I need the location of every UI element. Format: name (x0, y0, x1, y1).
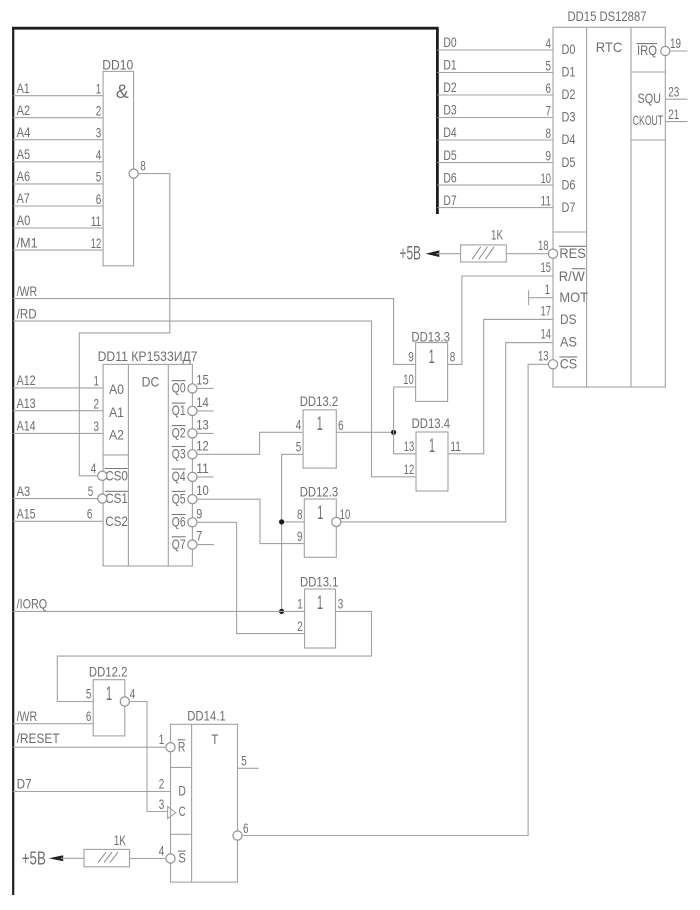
svg-text:13: 13 (538, 348, 549, 364)
wire data bus D2 to DD15 pin 6 (437, 94, 553, 96)
wire input A6 to DD10 pin 5 (13, 183, 103, 185)
svg-text:1: 1 (317, 592, 323, 614)
wire input /M1 to DD10 pin 12 (13, 249, 103, 251)
svg-text:23: 23 (668, 83, 679, 99)
DD11 output inversion bubble pin 11 (188, 472, 197, 481)
wire Q6 (pin 9) to DD13.1 pin 2 (197, 522, 305, 633)
svg-text:D0: D0 (562, 41, 576, 57)
DD15 internal divider left (586, 27, 588, 387)
wire D7 to DD14.1 pin 2 (13, 791, 170, 793)
svg-text:A0: A0 (109, 381, 124, 397)
svg-text:1: 1 (545, 281, 551, 297)
svg-text:D4: D4 (443, 124, 456, 140)
svg-text:CS2: CS2 (105, 513, 128, 529)
wire resistor R2 to DD14.1 pin 4 (130, 858, 167, 860)
DD11 internal divider left (127, 364, 129, 566)
svg-text:12: 12 (196, 437, 209, 453)
svg-text:8: 8 (140, 158, 146, 174)
svg-text:DD12.3: DD12.3 (300, 484, 339, 500)
svg-text:10: 10 (340, 506, 351, 522)
wire Q5 (pin 10) to DD12.3 pin 9 (197, 499, 304, 543)
wire DD12.2 output 4 to DD14.1 pin 3 (C) (129, 702, 167, 812)
svg-text:CKOUT: CKOUT (633, 112, 664, 128)
wire node down to DD13.4 pin 13 (394, 432, 416, 454)
DD11 output inversion bubble pin 9 (188, 518, 197, 527)
svg-text:AS: AS (560, 334, 577, 350)
MOT open-end tick (528, 290, 530, 305)
svg-text:D7: D7 (443, 192, 456, 208)
overline for Q7 (172, 536, 186, 538)
svg-text:A7: A7 (17, 190, 30, 206)
svg-text:CS1: CS1 (105, 490, 128, 506)
svg-text:4: 4 (130, 686, 136, 702)
svg-text:T: T (211, 731, 219, 747)
svg-text:D5: D5 (443, 147, 456, 163)
DD15 pin 19 inversion bubble (661, 46, 670, 55)
DD12.3 output inversion bubble pin 10 (332, 517, 341, 526)
wire DD13.3 pin 10 from node (394, 386, 416, 388)
svg-text:/WR: /WR (17, 708, 37, 724)
overline for RES (559, 245, 586, 247)
wire /RD to DD13.4 pin 12 (13, 321, 416, 477)
svg-text:9: 9 (196, 505, 202, 521)
wire input A15 to DD11 pin 6 (13, 520, 103, 522)
svg-text:A15: A15 (17, 506, 36, 522)
svg-text:D7: D7 (562, 199, 576, 215)
svg-text:4: 4 (96, 147, 102, 163)
wire data bus D7 to DD15 pin 11 (437, 207, 553, 209)
DD14.1 output stub pin 5 (238, 767, 259, 769)
wire input A12 to DD11 pin 1 (13, 387, 103, 389)
svg-text:DD13.4: DD13.4 (412, 415, 451, 431)
resistor R1 hatch (472, 247, 494, 259)
svg-text:Q7: Q7 (172, 536, 186, 552)
svg-text:11: 11 (541, 192, 552, 208)
wire DD13.2 pin 5 from IORQ net (282, 453, 304, 455)
overline for Q1 (172, 402, 186, 404)
svg-text:A13: A13 (17, 395, 36, 411)
DD11 pin 4 inversion bubble (98, 471, 107, 480)
DD11 output inversion bubble pin 14 (188, 406, 197, 415)
wire input A7 to DD10 pin 6 (13, 205, 103, 207)
nor-gate DD12.2 body (93, 680, 125, 736)
resistor R2 body (84, 849, 130, 866)
svg-text:1: 1 (429, 346, 435, 368)
svg-text:6: 6 (87, 506, 93, 522)
svg-text:11: 11 (450, 438, 461, 454)
svg-text:/M1: /M1 (17, 234, 38, 250)
svg-text:CS0: CS0 (105, 467, 128, 483)
wire DD13.4 output 11 to DD15 DS pin 17 (448, 319, 553, 453)
power arrow +5В (bottom) (49, 855, 63, 861)
svg-text:13: 13 (404, 438, 415, 454)
wire DD12.3 pin 8 from IORQ net (282, 521, 305, 523)
DD14.1 left column divider upper (171, 766, 192, 768)
svg-text:A0: A0 (17, 212, 31, 228)
svg-text:Q0: Q0 (172, 380, 186, 396)
DD10 output inversion bubble pin 8 (129, 169, 138, 178)
svg-text:12: 12 (91, 235, 102, 251)
resistor R2 hatch (98, 852, 118, 862)
overline for Q2 (172, 425, 186, 427)
wire resistor R1 to DD15 pin 18 (506, 253, 548, 255)
svg-text:MOT: MOT (559, 289, 588, 305)
svg-text:A4: A4 (17, 124, 31, 140)
svg-text:12: 12 (404, 461, 415, 477)
svg-text:D1: D1 (443, 57, 456, 73)
wire Q3 (pin 12) to DD13.2 pin 4 (197, 432, 303, 454)
svg-text:1: 1 (106, 683, 112, 705)
wire data bus D4 to DD15 pin 8 (437, 139, 553, 141)
DD15 internal divider right (630, 27, 632, 387)
wire node vertical up to DD13.3 pin 10 (393, 387, 395, 432)
svg-text:DD14.1: DD14.1 (187, 708, 226, 724)
svg-text:SQU: SQU (638, 90, 662, 106)
svg-text:D6: D6 (562, 176, 576, 192)
svg-text:D3: D3 (562, 109, 576, 125)
RTC chip DD15 body (553, 27, 665, 387)
svg-text:6: 6 (86, 708, 92, 724)
node junction on DD12.3 pin 8 (279, 519, 284, 524)
wire DD15 pin 23 stub (665, 98, 687, 100)
flip-flop DD14.1 body (171, 724, 238, 882)
svg-text:6: 6 (96, 191, 102, 207)
DD11 output inversion bubble pin 7 (188, 540, 197, 549)
svg-text:A2: A2 (17, 102, 31, 118)
svg-text:D4: D4 (562, 131, 576, 147)
wire DD12.3 output 10 to DD15 AS pin 14 (341, 343, 553, 522)
node junction DD13.2.6-DD13.3.10-DD13.4.13 (391, 430, 396, 435)
svg-text:DD12.2: DD12.2 (89, 664, 128, 680)
stub wire Q4 (197, 476, 214, 478)
svg-text:2: 2 (297, 618, 303, 634)
svg-text:7: 7 (546, 102, 552, 118)
svg-text:D0: D0 (443, 34, 456, 50)
svg-text:C: C (179, 803, 186, 819)
svg-text:2: 2 (159, 776, 165, 792)
svg-text:W: W (572, 268, 585, 284)
svg-text:/RESET: /RESET (17, 730, 60, 746)
svg-text:A3: A3 (17, 483, 31, 499)
svg-text:5: 5 (241, 753, 247, 769)
wire input A13 to DD11 pin 2 (13, 410, 103, 412)
svg-text:CS: CS (560, 356, 577, 372)
or-gate DD13.3 body (416, 343, 448, 402)
wire DD15 pin 17 DS (484, 318, 553, 320)
svg-text:D6: D6 (443, 169, 456, 185)
DD11 left column divider (103, 454, 128, 456)
or-gate DD13.4 body (416, 432, 448, 491)
svg-text:A14: A14 (17, 418, 36, 434)
DD15 right column divider under CKOUT (631, 139, 665, 141)
DD14.1 clock edge triangle pin 3 (168, 807, 176, 819)
svg-text:13: 13 (196, 416, 209, 432)
svg-text:3: 3 (94, 418, 100, 434)
DD11 pin 5 inversion bubble (98, 494, 107, 503)
wire input A4 to DD10 pin 3 (13, 139, 103, 141)
svg-text:1K: 1K (114, 832, 126, 848)
svg-text:DD13.3: DD13.3 (411, 328, 450, 344)
power arrow +5В (top) (426, 250, 440, 257)
svg-text:D7: D7 (17, 776, 32, 792)
or-gate DD13.1 body (305, 589, 336, 648)
svg-text:3: 3 (159, 796, 165, 812)
svg-text:A1: A1 (17, 80, 30, 96)
svg-text:5: 5 (86, 686, 92, 702)
svg-text:9: 9 (408, 349, 414, 365)
svg-text:5: 5 (546, 57, 552, 73)
wire data bus D3 to DD15 pin 7 (437, 117, 553, 119)
svg-text:RTC: RTC (596, 39, 623, 55)
svg-text:DS: DS (560, 311, 577, 327)
overline for Q5 (172, 490, 186, 492)
svg-text:A12: A12 (17, 372, 36, 388)
svg-text:9: 9 (297, 528, 303, 544)
svg-text:A2: A2 (109, 427, 124, 443)
wire DD13.3 output 8 to DD15 R/W pin 15 (448, 276, 553, 364)
svg-text:1: 1 (159, 731, 165, 747)
svg-text:15: 15 (196, 371, 209, 387)
svg-text:D: D (178, 783, 186, 799)
svg-text:8: 8 (450, 349, 456, 365)
svg-text:21: 21 (668, 106, 679, 122)
svg-text:6: 6 (546, 80, 552, 96)
svg-text:6: 6 (338, 417, 344, 433)
svg-text:DD10: DD10 (102, 57, 133, 73)
wire input A3 to DD11 pin 5 (13, 498, 98, 500)
data bus thick vertical (436, 27, 439, 214)
svg-text:1: 1 (94, 373, 100, 389)
wire DD15 pin 21 stub (665, 121, 687, 123)
svg-text:4: 4 (159, 843, 165, 859)
DD12.2 output inversion bubble pin 4 (120, 697, 129, 706)
stub wire Q0 (197, 387, 214, 389)
overline for W (572, 268, 585, 270)
frame left border (12, 27, 14, 895)
svg-text:D2: D2 (443, 79, 456, 95)
svg-text:6: 6 (243, 820, 249, 836)
svg-text:1: 1 (297, 596, 303, 612)
svg-text:11: 11 (91, 213, 102, 229)
svg-text:IRQ: IRQ (637, 42, 657, 58)
svg-text:+5В: +5В (22, 848, 46, 868)
resistor R1 body (461, 245, 507, 262)
wire /WR to DD13.3 pin 9 (13, 299, 415, 365)
svg-text:DC: DC (142, 374, 160, 390)
svg-text:A5: A5 (17, 146, 31, 162)
svg-text:1: 1 (429, 435, 435, 457)
svg-text:14: 14 (541, 326, 552, 342)
decoder DD11 body (103, 364, 192, 566)
svg-text:10: 10 (541, 170, 552, 186)
svg-text:2: 2 (94, 396, 100, 412)
wire DD15 pin 15 R/W (462, 275, 553, 277)
DD15 left column divider (553, 231, 587, 233)
svg-text:2: 2 (96, 103, 102, 119)
svg-text:DD15 DS12887: DD15 DS12887 (568, 8, 647, 24)
wire DD10 pin 8 to DD11 pin 4 (CS0) (79, 174, 170, 476)
DD11 output inversion bubble pin 12 (188, 450, 197, 459)
DD14.1 left column divider lower (171, 833, 192, 835)
DD14.1 pin 4 inversion bubble (166, 854, 175, 863)
overline for R (178, 739, 186, 741)
wire DD15 pin 19 stub (670, 50, 688, 52)
svg-text:Q6: Q6 (172, 514, 186, 530)
wire DD15 pin 14 AS (506, 342, 553, 344)
DD14.1 output inversion bubble pin 6 (233, 831, 242, 840)
svg-text:10: 10 (403, 371, 414, 387)
svg-text:4: 4 (546, 35, 552, 51)
svg-text:A1: A1 (109, 404, 124, 420)
DD11 output inversion bubble pin 15 (188, 384, 197, 393)
wire input A5 to DD10 pin 4 (13, 161, 103, 163)
overline for CS (559, 356, 577, 358)
DD11 output inversion bubble pin 13 (188, 429, 197, 438)
nor-gate DD12.3 body (304, 499, 336, 557)
wire data bus D5 to DD15 pin 9 (437, 162, 553, 164)
svg-text:+5В: +5В (400, 243, 422, 264)
svg-text:5: 5 (88, 483, 94, 499)
wire DD13.2 output 6 to node (336, 431, 393, 433)
svg-text:10: 10 (196, 482, 209, 498)
DD11 output inversion bubble pin 10 (188, 495, 197, 504)
wire /IORQ to DD13.1 pin 1 (13, 610, 304, 612)
svg-text:A6: A6 (17, 168, 31, 184)
svg-text:D5: D5 (562, 154, 576, 170)
svg-text:4: 4 (91, 460, 97, 476)
wire data bus D6 to DD15 pin 10 (437, 184, 553, 186)
node junction on /IORQ line (279, 609, 284, 614)
svg-text:1K: 1K (491, 226, 503, 242)
svg-text:1: 1 (317, 502, 323, 524)
svg-text:R/: R/ (559, 268, 572, 284)
stub wire Q2 (197, 432, 214, 434)
svg-text:/WR: /WR (17, 283, 37, 299)
logic gate DD10 body (103, 71, 134, 265)
svg-text:1: 1 (96, 81, 102, 97)
wire arrow to resistor R2 (61, 857, 84, 859)
svg-text:17: 17 (541, 303, 552, 319)
svg-text:3: 3 (96, 125, 102, 141)
svg-text:15: 15 (541, 259, 552, 275)
svg-text:14: 14 (196, 394, 209, 410)
DD14.1 internal divider (191, 724, 193, 882)
svg-text:7: 7 (196, 528, 202, 544)
wire arrow to resistor R1 (437, 253, 461, 255)
or-gate DD13.2 body (303, 410, 336, 468)
svg-text:D3: D3 (443, 102, 456, 118)
overline for CS0 (105, 468, 128, 470)
wire /RESET to DD14.1 pin 1 (13, 746, 166, 748)
DD11 internal divider right (167, 364, 169, 566)
overline for Q6 (172, 514, 186, 516)
overline for S (178, 850, 186, 852)
svg-text:Q1: Q1 (172, 402, 186, 418)
svg-text:3: 3 (338, 596, 344, 612)
svg-text:DD11 КР1533ИД7: DD11 КР1533ИД7 (98, 348, 198, 364)
DD14.1 pin 1 inversion bubble (166, 743, 175, 752)
svg-text:19: 19 (670, 35, 681, 51)
overline for IRQ (637, 43, 657, 45)
svg-text:/IORQ: /IORQ (17, 595, 48, 611)
DD15 pin 18 inversion bubble (548, 249, 557, 258)
svg-text:R: R (178, 738, 186, 754)
stub wire Q7 (197, 544, 214, 546)
wire DD14.1 output 6 to DD15 CS pin 13 (242, 364, 549, 835)
overline for Q3 (172, 446, 186, 448)
stub wire Q1 (197, 410, 214, 412)
svg-text:9: 9 (546, 147, 552, 163)
svg-text:D1: D1 (562, 64, 576, 80)
wire input A1 to DD10 pin 1 (13, 95, 103, 97)
DD15 right column divider under IRQ (631, 71, 665, 73)
svg-text:S: S (178, 850, 186, 866)
frame top thick line (12, 27, 439, 30)
wire data bus D1 to DD15 pin 5 (437, 72, 553, 74)
wire input A14 to DD11 pin 3 (13, 432, 103, 434)
wire /WR to DD12.2 pin 6 (13, 723, 93, 725)
svg-text:5: 5 (96, 169, 102, 185)
overline for Q4 (172, 468, 186, 470)
wire data bus D0 to DD15 pin 4 (437, 49, 553, 51)
svg-text:8: 8 (297, 506, 303, 522)
svg-text:4: 4 (296, 417, 302, 433)
DD15 pin 13 inversion bubble (548, 360, 557, 369)
svg-text:DD13.1: DD13.1 (300, 574, 339, 590)
svg-text:&: & (116, 82, 129, 103)
wire input A0 to DD10 pin 11 (13, 227, 103, 229)
svg-text:Q2: Q2 (172, 425, 186, 441)
svg-text:Q3: Q3 (172, 446, 186, 462)
wire MOT unconnected stub (529, 297, 553, 299)
overline for Q0 (172, 380, 186, 382)
svg-text:DD13.2: DD13.2 (300, 393, 339, 409)
wire DD13.1 output 3 to DD12.2 pin 5 (57, 611, 371, 701)
svg-text:Q4: Q4 (172, 468, 186, 484)
overline for CS1 (105, 490, 128, 492)
svg-text:5: 5 (296, 439, 302, 455)
svg-text:8: 8 (546, 125, 552, 141)
wire input A2 to DD10 pin 2 (13, 117, 103, 119)
svg-text:D2: D2 (562, 86, 576, 102)
wire IORQ net vertical (281, 454, 283, 611)
svg-text:11: 11 (196, 460, 209, 476)
svg-text:1: 1 (317, 413, 323, 435)
svg-text:RES: RES (559, 245, 585, 261)
svg-text:18: 18 (538, 237, 549, 253)
svg-text:/RD: /RD (17, 305, 37, 321)
svg-text:Q5: Q5 (172, 490, 186, 506)
